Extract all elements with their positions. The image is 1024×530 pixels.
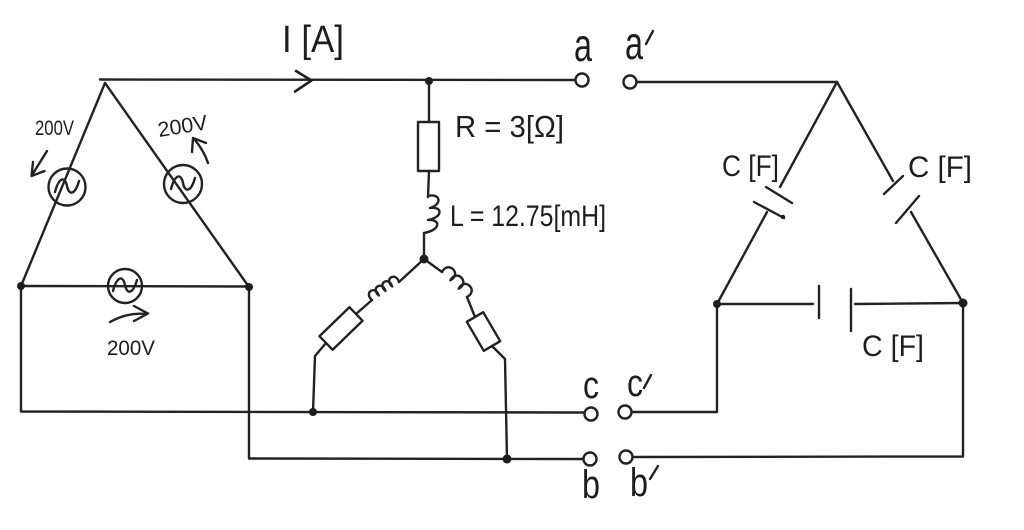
- svg-text:a: a: [625, 17, 643, 69]
- capacitor C2 on right edge: [884, 176, 919, 223]
- wire star node to right coil: [424, 259, 442, 272]
- current arrow on top wire: [295, 71, 312, 92]
- resistor right branch: [467, 312, 500, 351]
- svg-text:R = 3[Ω]: R = 3[Ω]: [455, 109, 564, 144]
- svg-text:200V: 200V: [156, 111, 209, 142]
- svg-text:L = 12.75[mH]: L = 12.75[mH]: [450, 200, 606, 233]
- svg-text:b: b: [582, 463, 600, 507]
- svg-text:C [F]: C [F]: [862, 330, 924, 363]
- wire lower part of capacitor delta left edge: [717, 212, 767, 304]
- svg-text:a: a: [574, 19, 592, 71]
- svg-text:C [F]: C [F]: [722, 150, 779, 183]
- wire lower part of capacitor delta right edge: [911, 212, 963, 303]
- svg-text:b: b: [630, 461, 648, 505]
- arrow for V2 200V: [192, 138, 208, 163]
- svg-text:I [A]: I [A]: [282, 19, 344, 61]
- wire right edge of source delta: [105, 83, 249, 287]
- terminal b': [620, 451, 633, 464]
- node star point of load: [420, 255, 429, 264]
- voltage source V3 (bottom, 200V): [108, 269, 142, 303]
- wire bottom edge of source delta: [21, 285, 249, 288]
- arrow for V3 200V: [110, 306, 148, 322]
- resistor left branch: [319, 307, 362, 350]
- ink blob at end of C1 plate: [781, 215, 785, 219]
- svg-text:200V: 200V: [35, 117, 74, 140]
- svg-text:200V: 200V: [107, 337, 155, 360]
- voltage source V1 (left, 200V): [49, 169, 86, 206]
- node junction right branch on b wire: [503, 455, 512, 464]
- wire right part of capacitor delta bottom edge: [855, 303, 963, 304]
- wire left part of capacitor delta bottom edge: [717, 303, 813, 305]
- arrow for V1 200V: [32, 151, 48, 176]
- terminal a: [576, 74, 589, 87]
- wire right coil to right resistor: [467, 297, 475, 317]
- wire upper part of capacitor delta right edge: [837, 82, 893, 181]
- terminal c': [619, 406, 632, 419]
- wire left coil to left resistor: [356, 300, 372, 314]
- prime mark of a': [646, 31, 653, 44]
- capacitor C3 on bottom edge: [819, 286, 851, 331]
- inductor left branch: [369, 277, 399, 300]
- node left corner of source delta: [17, 282, 25, 290]
- wire inductor L to star node: [423, 233, 425, 255]
- wire from right source corner down and right to terminal b: [249, 287, 583, 459]
- prime mark of c': [644, 375, 651, 388]
- wire from top junction down to resistor R: [428, 81, 430, 122]
- inductor right branch: [442, 267, 472, 297]
- wire star node to left coil: [399, 259, 424, 282]
- terminal b: [584, 453, 597, 466]
- svg-text:c: c: [583, 365, 599, 407]
- node right corner of capacitor delta: [959, 299, 968, 308]
- wire top line from source apex to terminal a: [100, 78, 575, 81]
- resistor R (3 ohm): [418, 122, 439, 171]
- svg-text:C [F]: C [F]: [908, 151, 972, 184]
- voltage source V2 (right, 200V): [164, 165, 202, 203]
- inductor L (12.75 mH): [424, 195, 440, 233]
- wire from left source corner down and right to terminal c: [21, 286, 584, 413]
- node right corner of source delta: [245, 283, 253, 291]
- svg-text:c: c: [627, 363, 643, 405]
- prime mark of b': [650, 466, 658, 479]
- node junction on top wire: [425, 77, 433, 85]
- wire resistor R to inductor L: [428, 171, 429, 197]
- wire capacitor delta right corner down to terminal b': [633, 303, 963, 457]
- capacitor C1 on left edge: [754, 187, 792, 218]
- terminal a': [624, 76, 637, 89]
- wire upper part of capacitor delta left edge: [780, 82, 837, 187]
- wire terminal a' to capacitor delta apex: [637, 81, 838, 83]
- terminal c: [585, 408, 598, 421]
- node left corner of capacitor delta: [713, 300, 721, 308]
- node junction left branch on c wire: [309, 408, 317, 416]
- wire right resistor down to bottom wire junction: [492, 346, 507, 459]
- wire left edge of source delta: [21, 83, 105, 286]
- wire left resistor down to bottom wire junction: [313, 343, 326, 412]
- wire capacitor delta left corner down to terminal c': [632, 304, 717, 412]
